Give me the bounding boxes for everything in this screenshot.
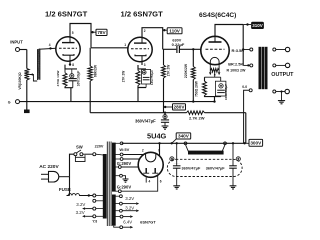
- wire plug to junction: [59, 176, 70, 178]
- voltage box 310V (inverted): [252, 22, 264, 28]
- V3 plate wire to OPT: [215, 25, 243, 37]
- primary tap 0: [93, 199, 96, 202]
- capacitor can V2 cathode: [142, 70, 151, 85]
- tube V2 envelope: [128, 37, 152, 61]
- cap2 riser: [232, 142, 234, 144]
- capacitor 360V/47uF no.1: [174, 163, 180, 165]
- primary tap 1 arrow: [93, 207, 96, 210]
- node 110V tap: [163, 29, 165, 31]
- B+ wire from rectifier: [122, 142, 246, 144]
- wire OPT B+ down primary: [242, 25, 244, 66]
- wire 68K to +280V rail: [89, 81, 91, 113]
- wire 5V a to pin2: [123, 154, 144, 156]
- voltage box 340V: [176, 133, 191, 139]
- choke winding: [186, 145, 226, 152]
- voltage box 110V: [167, 28, 182, 34]
- node 310V tap: [246, 23, 248, 25]
- ground output: [280, 90, 282, 92]
- sec terminal 5V a: [115, 154, 120, 156]
- grid coil element (pot winding): [37, 49, 39, 80]
- AC plug: [49, 171, 59, 182]
- voltage box 78V: [96, 29, 107, 35]
- wire fuse to primary: [83, 195, 93, 197]
- cathode network top link: [204, 77, 206, 81]
- wire 290V a to V4: [121, 166, 139, 168]
- voltage box 280V: [173, 104, 186, 110]
- pot wiper to cathode network: [214, 72, 216, 77]
- resistor 68K/2W plate load: [89, 48, 91, 66]
- cathode network bottom to ground: [205, 96, 221, 97]
- V3 grid (dashed): [206, 48, 225, 50]
- sec heater tap 3 with arrow: [115, 216, 120, 218]
- input jack terminal: [16, 48, 20, 52]
- primary tap terminal: [243, 64, 250, 66]
- ground stub below bus: [26, 102, 28, 110]
- PT core: [106, 142, 108, 227]
- V3 filament pins with arrows: [209, 64, 211, 72]
- potentiometer VR 100K body: [24, 69, 29, 81]
- V1 cathode network bottom link: [65, 87, 73, 88]
- sec terminal 5V b: [115, 158, 120, 160]
- cap2 ground: [232, 168, 234, 186]
- output terminal 3: [285, 89, 289, 93]
- tube V1 envelope: [56, 37, 80, 61]
- cap1 plus: [170, 157, 174, 161]
- V2 plate: [134, 42, 147, 44]
- hum pot 100ohm across filament: [210, 69, 219, 73]
- sec center tap: [115, 175, 119, 177]
- capacitor can 6S4S cathode: [215, 81, 226, 96]
- output terminal 2: [285, 63, 289, 67]
- capacitor 360V/47uF (280V rail): [164, 112, 166, 114]
- sec terminal B+ takeoff: [115, 142, 120, 144]
- primary terminal fuse: [93, 194, 96, 197]
- wire pot bottom to ground bus: [26, 80, 28, 102]
- V1 cathode network top link: [65, 65, 77, 69]
- resistor 2.7K 2W: [187, 111, 205, 115]
- secondary tap 2: [273, 64, 276, 67]
- secondary bottom tap: [273, 90, 276, 93]
- wire junction up to switch: [70, 154, 74, 177]
- PT secondary winding bar bottom: [112, 195, 116, 226]
- V2 cathode junction/network: [141, 62, 143, 65]
- V4 pin4 stub: [145, 177, 147, 182]
- primary top terminal: [243, 49, 250, 51]
- wire 220K to ground bus: [192, 80, 194, 102]
- node 280V tap: [164, 106, 166, 108]
- V1 cathode junction: [69, 63, 71, 65]
- cap1 ground: [176, 178, 178, 186]
- V2 plate wire up/right: [142, 28, 163, 50]
- junction node grid V1: [49, 47, 51, 49]
- wire cathode network to ground bus: [70, 88, 72, 102]
- node 300V tap: [243, 142, 245, 144]
- wire junction down to fuse: [69, 177, 71, 196]
- wire V2 plate node to coupling cap: [163, 48, 177, 50]
- resistor 750ohm 20W: [203, 81, 207, 95]
- sec heater tap 0: [115, 195, 119, 197]
- +280V rail wire: [90, 112, 186, 114]
- V4 plates: [145, 168, 147, 173]
- wire 5V b into tube: [123, 158, 140, 160]
- wire plate V1 node to V2 grid: [91, 47, 128, 49]
- V2 cathode network bottom to ground bus: [138, 86, 146, 88]
- rail to 300V node: [205, 112, 246, 114]
- sec heater tap 2 with arrow: [115, 210, 119, 212]
- V3 plate: [209, 41, 222, 43]
- wire switch to primary: [85, 153, 93, 155]
- tube V3 envelope: [201, 36, 229, 64]
- sec terminal 290V a: [115, 166, 118, 168]
- PT primary winding bar: [103, 154, 107, 219]
- secondary tap 1: [273, 48, 276, 51]
- V2 grid (dashed): [131, 48, 149, 50]
- fuse element: [67, 194, 83, 196]
- wire input to volume pot: [20, 49, 27, 51]
- tube V4 envelope: [138, 152, 163, 177]
- ground bus wire: [20, 101, 215, 103]
- output terminal 1: [285, 47, 289, 51]
- cap1 riser: [176, 142, 178, 144]
- node 78V tap: [91, 31, 93, 33]
- V1 plate: [62, 42, 75, 44]
- primary terminal top: [93, 153, 96, 156]
- resistor 27K 2W plate load V2: [163, 49, 165, 65]
- wire 27K to 280V rail: [163, 78, 165, 113]
- switch SW: [74, 153, 77, 156]
- pot wiper arm: [29, 75, 37, 82]
- wire 290V b to V4 pin6: [121, 175, 158, 191]
- primary tap 2 arrow: [93, 215, 96, 218]
- cap can dashed outline: [167, 159, 242, 176]
- resistor 470ohm cathode V1: [63, 73, 67, 87]
- wire cap to 6S4S grid: [179, 48, 201, 50]
- voltage box 300V: [249, 139, 263, 146]
- OPT core: [259, 47, 262, 89]
- resistor 220K/2W grid leak: [192, 48, 194, 50]
- sec heater tap 4 with arrow: [114, 226, 120, 228]
- wire coil top to V1 grid: [39, 48, 57, 49]
- V1 plate wire up and over: [70, 24, 91, 48]
- sec terminal 290V b: [115, 190, 118, 192]
- V4 filament curl: [146, 153, 156, 162]
- node 340V tap: [171, 142, 173, 144]
- V3 filament curl: [210, 57, 219, 64]
- V1 grid (dashed): [59, 47, 77, 49]
- V2 cathode: [135, 55, 146, 56]
- ground center tap: [123, 178, 129, 180]
- cap2 plus: [236, 157, 240, 161]
- choke terminals: [184, 142, 187, 145]
- V4 pin8 riser to B+: [159, 143, 161, 156]
- capacitor 16V/100uF plus mark: [70, 74, 74, 78]
- resistor 27K 2W cathode V2: [136, 71, 140, 86]
- capacitor 16V/100uF plates: [69, 78, 77, 80]
- capacitor 360V/47uF no.2: [229, 165, 237, 167]
- V1 cathode: [63, 54, 74, 55]
- PT secondary winding bar top: [112, 143, 116, 192]
- sec heater tap 1 with arrow: [115, 203, 119, 205]
- capacitor 0.22uF coupling: [176, 46, 178, 53]
- primary bottom terminal: [249, 89, 252, 92]
- ground symbol input: [24, 110, 30, 114]
